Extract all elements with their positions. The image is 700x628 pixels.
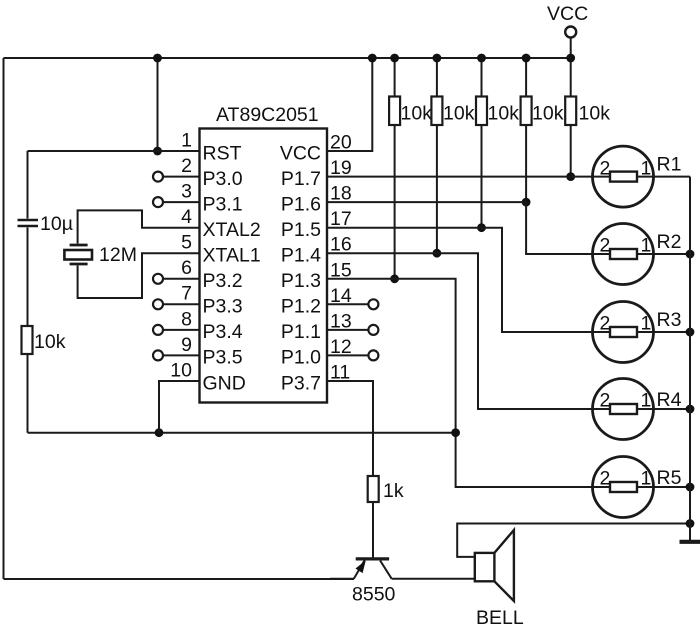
wire R1 to bus: [654, 176, 691, 178]
svg-text:P1.5: P1.5: [281, 219, 321, 241]
svg-text:P1.2: P1.2: [281, 296, 321, 318]
resistor RP1 10k: [394, 58, 396, 97]
svg-text:P3.7: P3.7: [281, 372, 321, 394]
wire pin10 drop: [159, 381, 200, 433]
svg-text:GND: GND: [203, 372, 246, 394]
wire speaker top: [457, 524, 690, 557]
capacitor C1 10u: [18, 219, 39, 222]
wire R2 to bus: [654, 253, 691, 255]
wire xtal2: [78, 210, 200, 243]
svg-text:1: 1: [641, 468, 652, 490]
svg-text:P3.1: P3.1: [203, 193, 243, 215]
wire VCC top rail: [4, 57, 571, 59]
pin 9 circle P3.5: [153, 350, 163, 360]
resistor R6 1k: [368, 476, 379, 502]
pin 8 circle P3.4: [153, 325, 163, 335]
svg-text:10k: 10k: [443, 103, 475, 125]
svg-text:8550: 8550: [352, 584, 396, 606]
wire gnd rail: [28, 432, 456, 434]
svg-text:XTAL2: XTAL2: [203, 219, 261, 241]
speaker BELL cone: [494, 530, 514, 601]
sensor R3: [593, 302, 682, 363]
sensor R4: [593, 379, 682, 440]
wire RST branch down to cap: [27, 151, 29, 219]
svg-text:10: 10: [170, 359, 192, 381]
sensor R5: [593, 457, 682, 518]
svg-text:8: 8: [181, 308, 192, 330]
resistor RP2 10k: [436, 58, 438, 97]
transistor Q1 8550 base bar: [356, 557, 389, 560]
wire R5 to bus: [654, 486, 691, 488]
wire cap to resistor: [27, 228, 29, 327]
svg-text:P1.6: P1.6: [281, 193, 321, 215]
svg-text:2: 2: [600, 468, 611, 490]
svg-text:5: 5: [181, 232, 192, 254]
wire R3 to bus: [654, 331, 691, 333]
svg-text:2: 2: [600, 157, 611, 179]
svg-text:2: 2: [181, 155, 192, 177]
wire pin17 P1.5 to R3: [327, 228, 593, 332]
wire right bus: [689, 177, 691, 540]
svg-text:2: 2: [600, 235, 611, 257]
crystal X1 body: [64, 250, 92, 260]
svg-text:P3.2: P3.2: [203, 270, 243, 292]
resistor RP3 10k: [481, 58, 483, 97]
svg-text:9: 9: [181, 334, 192, 356]
svg-text:10k: 10k: [532, 103, 564, 125]
node RST junction: [153, 147, 162, 156]
svg-text:P1.7: P1.7: [281, 168, 321, 190]
wire left vertical VCC rail: [3, 58, 5, 579]
pin 13 circle P1.1: [368, 325, 378, 335]
svg-text:R3: R3: [657, 309, 682, 331]
wire resistor to gnd rail: [27, 354, 29, 433]
wire bottom left to emitter: [4, 578, 355, 580]
svg-text:P3.5: P3.5: [203, 347, 243, 369]
crystal X1 plates: [70, 244, 88, 247]
svg-text:BELL: BELL: [476, 607, 524, 628]
wire pin15 P1.3 to R5: [327, 279, 593, 487]
sensor R2: [593, 224, 682, 285]
svg-text:P3.0: P3.0: [203, 168, 243, 190]
node R4-bus: [686, 405, 695, 414]
wire pin1 RST: [28, 150, 200, 152]
pin 14 circle P1.2: [368, 299, 378, 309]
node R2-bus: [686, 250, 695, 259]
svg-text:11: 11: [330, 362, 350, 384]
pin 7 circle P3.3: [153, 299, 163, 309]
wire R4 to bus: [654, 408, 691, 410]
svg-text:10k: 10k: [488, 103, 520, 125]
svg-text:AT89C2051: AT89C2051: [216, 104, 319, 126]
svg-text:12M: 12M: [99, 244, 137, 266]
node pin20-rail: [368, 54, 377, 63]
speaker BELL coil box: [475, 553, 495, 581]
svg-text:XTAL1: XTAL1: [203, 245, 261, 267]
svg-text:1: 1: [641, 235, 652, 257]
svg-text:1k: 1k: [383, 480, 404, 502]
wire pin11 P3.7 drop: [327, 381, 373, 476]
IC U1 AT89C2051 body: [200, 129, 328, 403]
svg-text:13: 13: [330, 310, 352, 332]
node gnd rail end: [451, 428, 460, 437]
svg-text:10k: 10k: [579, 103, 611, 125]
svg-text:R2: R2: [657, 231, 682, 253]
transistor Q1 emitter: [354, 561, 365, 579]
pin names left: [203, 142, 261, 394]
svg-text:1: 1: [641, 313, 652, 335]
svg-text:10k: 10k: [401, 103, 433, 125]
svg-text:R5: R5: [657, 467, 682, 489]
wire pin16 P1.4 to R4: [327, 253, 593, 409]
svg-text:P1.3: P1.3: [281, 270, 321, 292]
svg-text:18: 18: [330, 183, 352, 205]
node R5-bus: [686, 483, 695, 492]
svg-text:1: 1: [641, 390, 652, 412]
svg-text:VCC: VCC: [547, 3, 588, 25]
svg-text:R4: R4: [657, 389, 682, 411]
svg-text:4: 4: [181, 206, 192, 228]
transistor Q1 collector: [380, 561, 392, 579]
svg-text:15: 15: [330, 259, 352, 281]
wire pin20 VCC: [327, 58, 372, 151]
resistor RP4 10k: [525, 58, 527, 97]
svg-text:2: 2: [600, 390, 611, 412]
wire 1k to base: [372, 502, 374, 558]
svg-text:P3.4: P3.4: [203, 321, 243, 343]
wire pin18 P1.6 to R2: [327, 202, 593, 254]
svg-text:P3.3: P3.3: [203, 296, 243, 318]
svg-text:12: 12: [330, 336, 352, 358]
svg-text:20: 20: [330, 132, 352, 154]
resistor RP5 10k: [570, 58, 572, 97]
node speaker-bus: [686, 519, 695, 528]
wire RST pullup vertical: [157, 58, 159, 151]
transistor Q1 emitter arrow: [356, 560, 366, 573]
svg-text:1: 1: [181, 129, 192, 151]
pin 6 circle P3.2: [153, 274, 163, 284]
svg-text:10µ: 10µ: [40, 213, 73, 235]
sensor R1: [593, 146, 682, 207]
svg-text:14: 14: [330, 285, 352, 307]
svg-text:19: 19: [330, 157, 352, 179]
svg-text:RST: RST: [203, 142, 242, 164]
svg-text:7: 7: [181, 283, 192, 305]
svg-text:VCC: VCC: [280, 142, 321, 164]
svg-text:R1: R1: [657, 154, 682, 176]
pin numbers left: [170, 129, 192, 381]
svg-text:2: 2: [600, 313, 611, 335]
pin numbers right: [330, 132, 352, 384]
node R3-bus: [686, 328, 695, 337]
wire pin19 P1.7 to R1: [327, 176, 593, 178]
pin names right: [280, 142, 321, 394]
pin 3 circle P3.1: [153, 197, 163, 207]
pin 12 circle P1.0: [368, 350, 378, 360]
svg-text:17: 17: [330, 208, 352, 230]
node gnd-pin10: [155, 428, 164, 437]
svg-text:P1.0: P1.0: [281, 347, 321, 369]
ground bar: [680, 540, 700, 544]
wire xtal1: [78, 253, 200, 298]
pin 2 circle P3.0: [153, 172, 163, 182]
svg-text:1: 1: [641, 157, 652, 179]
svg-text:6: 6: [181, 257, 192, 279]
node rail-RST: [153, 54, 162, 63]
svg-text:10k: 10k: [34, 331, 66, 353]
resistor 10k left: [22, 326, 33, 354]
svg-text:P1.1: P1.1: [281, 321, 321, 343]
svg-text:3: 3: [181, 181, 192, 203]
svg-text:16: 16: [330, 234, 352, 256]
svg-text:P1.4: P1.4: [281, 245, 321, 267]
terminal VCC: [565, 27, 576, 38]
